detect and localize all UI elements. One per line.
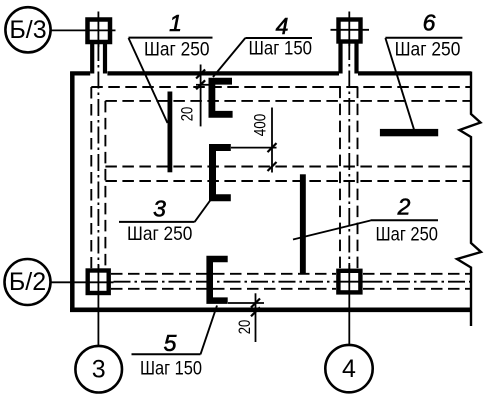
wire: right edge with break symbols bbox=[457, 72, 481, 327]
svg-text:Шаг 250: Шаг 250 bbox=[144, 38, 210, 60]
rebar 4 (C-bracket) bbox=[209, 78, 233, 118]
node marker Б/3 bbox=[5, 7, 50, 52]
wire: left wall outer edge bbox=[70, 72, 75, 313]
node grid axis Б/2 (dash-dot horizontal) bbox=[114, 281, 472, 283]
dimension 20 (top) bbox=[196, 65, 209, 127]
svg-text:Б/2: Б/2 bbox=[9, 268, 46, 296]
svg-text:3: 3 bbox=[92, 355, 106, 383]
rebar 3 (C-bracket) bbox=[209, 144, 231, 201]
svg-text:3: 3 bbox=[153, 195, 166, 221]
svg-text:4: 4 bbox=[342, 355, 356, 383]
wire: bottom wall outer edge bbox=[70, 307, 471, 312]
column neck top-left bbox=[92, 44, 105, 74]
rebar 5 (C-bracket) bbox=[206, 256, 227, 304]
svg-text:Шаг 250: Шаг 250 bbox=[127, 223, 193, 245]
svg-text:5: 5 bbox=[164, 330, 177, 356]
svg-text:Шаг 250: Шаг 250 bbox=[376, 224, 439, 246]
svg-text:6: 6 bbox=[423, 10, 436, 36]
label 6 with leader bbox=[385, 10, 462, 130]
svg-text:4: 4 bbox=[276, 13, 289, 39]
svg-text:400: 400 bbox=[251, 114, 269, 137]
wire: top wall outer edge bbox=[70, 71, 471, 75]
dimension 20 (bottom) bbox=[228, 293, 264, 342]
svg-text:Шаг 250: Шаг 250 bbox=[395, 38, 461, 60]
rebar 2 (vertical bar) bbox=[300, 174, 306, 273]
svg-text:Шаг 150: Шаг 150 bbox=[140, 358, 202, 380]
column TL at 3/Б3 bbox=[51, 12, 116, 48]
svg-text:2: 2 bbox=[397, 194, 411, 220]
node grid axis 3 (dash-dot vertical) bbox=[97, 44, 99, 268]
node marker 4 bbox=[325, 345, 372, 392]
label 1 with leader bbox=[129, 10, 213, 123]
column neck top-right bbox=[341, 43, 357, 74]
node marker 3 bbox=[75, 346, 122, 393]
column TR at 4/Б3 bbox=[331, 12, 370, 47]
dimension 400 bbox=[231, 108, 277, 173]
svg-text:Шаг 150: Шаг 150 bbox=[249, 38, 313, 60]
label 3 with leader bbox=[119, 195, 211, 245]
wire: dashed slab edge horizontals bbox=[91, 87, 471, 289]
svg-text:20: 20 bbox=[178, 107, 196, 122]
column BL at 3/Б2 bbox=[51, 265, 114, 346]
svg-text:Б/3: Б/3 bbox=[9, 16, 46, 44]
wire: dashed slab edge verticals bbox=[91, 87, 357, 269]
label 4 with leader bbox=[213, 13, 312, 77]
label 5 with leader bbox=[132, 306, 218, 380]
svg-text:1: 1 bbox=[169, 10, 182, 36]
rebar 1 (vertical bar) bbox=[168, 92, 173, 173]
label 2 with leader bbox=[293, 194, 438, 246]
rebar 6 (horizontal bar) bbox=[380, 129, 438, 136]
node grid axis 4 (dash-dot vertical) bbox=[348, 43, 350, 269]
node marker Б/2 bbox=[5, 259, 51, 305]
column BR at 4/Б2 bbox=[334, 265, 366, 345]
svg-text:20: 20 bbox=[236, 320, 254, 335]
